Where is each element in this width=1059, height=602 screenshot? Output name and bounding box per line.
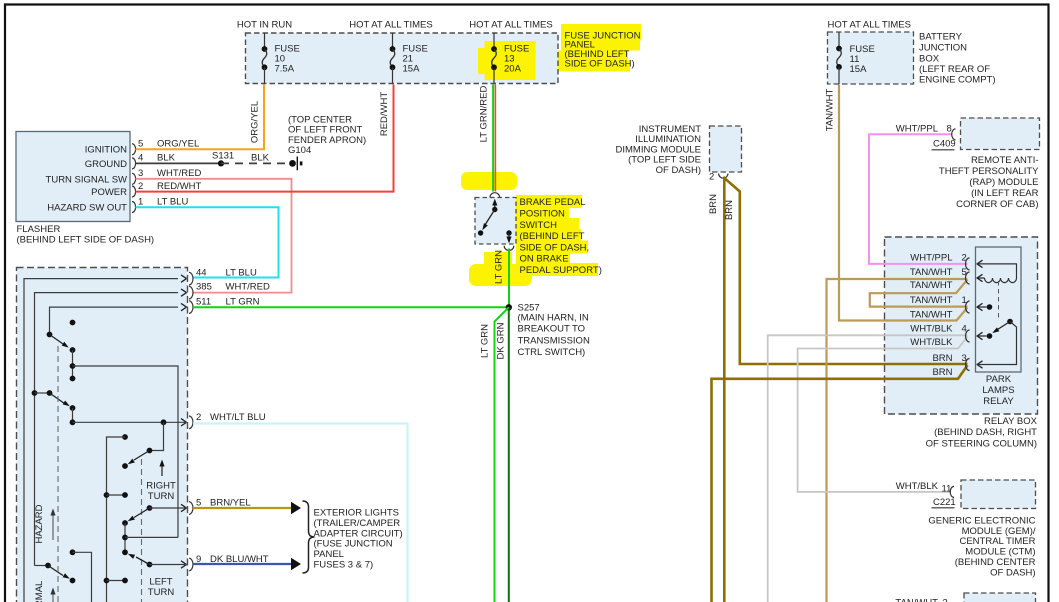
svg-text:LT BLU: LT BLU (157, 196, 188, 207)
bottom connector label (cut off) (895, 598, 947, 602)
svg-text:NORMAL: NORMAL (34, 581, 45, 602)
svg-text:BATTERY: BATTERY (919, 32, 963, 43)
fuse 13 20A (491, 33, 529, 84)
svg-text:FUSES 3 & 7): FUSES 3 & 7) (314, 559, 374, 570)
label HOT AT ALL TIMES (fuse 21) (349, 20, 432, 31)
svg-text:2: 2 (709, 172, 714, 183)
label HOT AT ALL TIMES (fuse 11) (828, 20, 911, 31)
label S257 main harn (518, 303, 590, 358)
relay contact to pin 3 (977, 322, 1017, 365)
svg-text:ORG/YEL: ORG/YEL (250, 101, 261, 143)
wire WHT/RED flasher pin 3 to hazard pin 385 (136, 179, 292, 293)
fuse 11 15A (836, 32, 875, 84)
wire BRN dimming module straight down (723, 177, 726, 602)
svg-text:(BEHIND DASH, RIGHT: (BEHIND DASH, RIGHT (934, 427, 1037, 438)
relay pin labels (910, 252, 967, 378)
labels BRN BRN vertical (708, 194, 735, 220)
hazard blade bottom (35, 563, 76, 584)
mech dashed link right (141, 459, 143, 602)
svg-text:TAN/WHT: TAN/WHT (910, 309, 953, 320)
svg-text:MODULE (CTM): MODULE (CTM) (965, 546, 1035, 557)
svg-text:TAN/WHT: TAN/WHT (895, 598, 938, 602)
flasher pin numbers and wire names (138, 139, 202, 208)
svg-text:REMOTE ANTI-: REMOTE ANTI- (971, 155, 1039, 166)
svg-text:RED/WHT: RED/WHT (379, 92, 390, 137)
splice S131 (212, 151, 234, 167)
label exterior lights (314, 508, 403, 571)
svg-text:BRN/YEL: BRN/YEL (210, 498, 251, 509)
brake pedal position switch box (475, 198, 516, 245)
label generic electronic module GEM (928, 516, 1036, 579)
svg-text:TURN: TURN (148, 491, 175, 502)
wire WHT/PPL C409 to relay pin 2 (869, 134, 968, 264)
svg-text:WHT/PPL: WHT/PPL (910, 252, 952, 263)
hazard switch wire to pin 385 (35, 286, 194, 565)
svg-text:SWITCH: SWITCH (520, 220, 558, 231)
svg-text:FLASHER: FLASHER (17, 224, 61, 235)
label park lamps relay (982, 374, 1014, 407)
svg-text:BLK: BLK (157, 153, 176, 164)
label instrument illumination dimming module (616, 124, 702, 176)
ground G104 (289, 157, 302, 171)
svg-text:44: 44 (196, 268, 207, 279)
svg-text:ORG/YEL: ORG/YEL (157, 139, 199, 150)
contact chain to long vertical (70, 350, 178, 537)
pin labels 44 385 511 (196, 268, 270, 308)
svg-text:7.5A: 7.5A (275, 64, 295, 75)
svg-text:20A: 20A (504, 64, 522, 75)
wire ORG/YEL flasher pin 5 to fuse 10 (136, 85, 265, 150)
svg-text:TURN SIGNAL SW: TURN SIGNAL SW (46, 174, 127, 185)
label HOT AT ALL TIMES (fuse 13) (469, 20, 552, 31)
svg-text:POWER: POWER (91, 187, 127, 198)
svg-text:GROUND: GROUND (85, 159, 127, 170)
svg-text:ON BRAKE: ON BRAKE (520, 254, 569, 265)
relay switch blade (977, 319, 1013, 339)
svg-text:4: 4 (138, 153, 143, 164)
switch blade 1 (47, 332, 76, 353)
svg-text:C409: C409 (933, 139, 956, 150)
instrument illumination dimming module box (710, 126, 742, 172)
fuse 21 15A (390, 33, 428, 84)
connector C221 pin 11 (896, 481, 956, 508)
right turn pivot and blade (122, 419, 166, 469)
wire DK GRN down from S257 (508, 310, 510, 602)
brake switch bottom connector arc (504, 246, 514, 251)
label LEFT TURN (148, 577, 175, 599)
label HAZARD with arrow (34, 504, 56, 543)
hazard switch wire to pin 511 (50, 301, 194, 335)
svg-text:15A: 15A (403, 64, 421, 75)
svg-text:SIDE OF DASH,: SIDE OF DASH, (520, 242, 590, 253)
svg-text:LT GRN: LT GRN (480, 324, 491, 358)
svg-text:JUNCTION: JUNCTION (919, 43, 967, 54)
hazard/turn switch box (17, 268, 188, 602)
svg-text:PARK: PARK (986, 374, 1012, 385)
svg-text:ENGINE COMPT): ENGINE COMPT) (919, 75, 996, 86)
svg-text:BRN: BRN (724, 200, 735, 220)
labels LT GRN / DK GRN vertical (480, 322, 507, 359)
wire to pin 2 (70, 412, 266, 429)
wire BRN/YEL from pin 5 (193, 502, 301, 514)
label battery junction box (919, 32, 996, 86)
highlight marker brake pedal switch label (513, 195, 598, 276)
flasher pin labels (46, 145, 128, 214)
wire RED/WHT flasher pin 2 to fuse 21 (136, 85, 394, 192)
svg-text:CORNER OF CAB): CORNER OF CAB) (956, 199, 1038, 210)
svg-text:G104: G104 (288, 145, 311, 156)
svg-text:LT GRN: LT GRN (226, 297, 260, 308)
svg-text:(LEFT REAR OF: (LEFT REAR OF (919, 64, 990, 75)
highlight marker above brake pedal switch (461, 172, 517, 190)
switch blade 2 (32, 390, 76, 422)
svg-text:511: 511 (196, 297, 211, 308)
svg-text:TURN: TURN (148, 587, 175, 598)
svg-text:BOX: BOX (919, 54, 940, 65)
svg-text:TRANSMISSION: TRANSMISSION (518, 336, 590, 347)
bottom junction dots (104, 578, 128, 584)
chain pin5 contact down (122, 523, 178, 555)
wire to pin 5 and blade (122, 498, 251, 526)
relay common contact pin 1 (977, 304, 993, 310)
svg-text:(IN LEFT REAR: (IN LEFT REAR (971, 188, 1039, 199)
mech dashed link left (57, 346, 59, 602)
svg-text:(BEHIND LEFT SIDE OF DASH): (BEHIND LEFT SIDE OF DASH) (17, 235, 155, 246)
label (TOP CENTER OF LEFT FRONT FENDER APRON) G104 (288, 114, 366, 156)
relay internal pin arrows (977, 260, 983, 368)
label ORG/YEL vertical (250, 101, 261, 143)
svg-text:HOT AT ALL TIMES: HOT AT ALL TIMES (828, 20, 911, 31)
label remote anti-theft RAP module (939, 155, 1039, 210)
highlight marker over fuse 13 (478, 41, 536, 80)
wire DK BLU/WHT from pin 9 (193, 558, 301, 570)
svg-text:OF DASH): OF DASH) (656, 165, 701, 176)
hazard switch wire to pin 44 (24, 272, 193, 602)
wire BRN from bottom to relay pin 3 (712, 365, 968, 602)
svg-text:BRN: BRN (932, 353, 952, 364)
svg-text:(FUSE JUNCTION: (FUSE JUNCTION (314, 539, 393, 550)
label FLASHER (BEHIND LEFT SIDE OF DASH) (17, 224, 155, 246)
wire LT GRN brake switch to S257 (508, 249, 510, 306)
contact dot upper (70, 320, 76, 326)
wire LT GRN/RED from fuse 13 to brake switch (493, 85, 495, 192)
fuse 10 7.5A (262, 33, 300, 84)
svg-text:LEFT: LEFT (149, 577, 172, 588)
svg-text:385: 385 (196, 282, 212, 293)
svg-text:S131: S131 (212, 151, 234, 162)
svg-text:(BEHIND CENTER: (BEHIND CENTER (955, 557, 1036, 568)
svg-text:(MAIN HARN, IN: (MAIN HARN, IN (518, 312, 589, 323)
connector C409 pin 8 (896, 124, 956, 150)
svg-text:LT BLU: LT BLU (226, 268, 257, 279)
wire WHT/BLK from bottom to relay pin 4 (768, 335, 968, 602)
fuse junction panel box (246, 33, 559, 84)
svg-text:WHT/BLK: WHT/BLK (910, 324, 953, 335)
remote anti-theft (RAP) module box (961, 118, 1040, 150)
generic electronic module (GEM) box (961, 480, 1036, 509)
svg-text:RELAY BOX: RELAY BOX (984, 416, 1038, 427)
svg-text:TAN/WHT: TAN/WHT (910, 267, 953, 278)
svg-text:RED/WHT: RED/WHT (157, 181, 202, 192)
bottom connector box (cut off) (964, 593, 1036, 602)
svg-text:5: 5 (196, 498, 201, 509)
svg-text:HOT IN RUN: HOT IN RUN (237, 20, 292, 31)
svg-text:3: 3 (943, 598, 948, 602)
svg-text:2: 2 (196, 412, 201, 423)
svg-text:CTRL SWITCH): CTRL SWITCH) (518, 347, 586, 358)
label NORMAL with arrow (34, 581, 56, 602)
svg-text:IGNITION: IGNITION (85, 145, 127, 156)
svg-text:EXTERIOR LIGHTS: EXTERIOR LIGHTS (314, 508, 400, 519)
svg-text:BRN: BRN (708, 194, 719, 214)
svg-text:TAN/WHT: TAN/WHT (910, 280, 953, 291)
brace exterior lights (303, 501, 315, 573)
label fuse junction panel (565, 30, 641, 69)
svg-text:OF STEERING COLUMN): OF STEERING COLUMN) (926, 438, 1037, 449)
highlight marker below brake pedal switch (469, 252, 532, 286)
svg-text:C221: C221 (933, 497, 956, 508)
label LT GRN/RED vertical (479, 86, 490, 143)
label RED/WHT vertical (379, 92, 390, 137)
brake switch internals (478, 199, 512, 244)
svg-text:BREAKOUT TO: BREAKOUT TO (518, 324, 586, 335)
right turn upper contact (107, 434, 128, 602)
svg-text:TAN/WHT: TAN/WHT (910, 295, 953, 306)
svg-text:WHT/BLK: WHT/BLK (910, 337, 953, 348)
flasher box (16, 132, 130, 222)
wire LT GRN pin 511 to S257 (193, 306, 506, 308)
svg-text:WHT/RED: WHT/RED (226, 282, 270, 293)
park lamps relay inner box (976, 247, 1022, 372)
battery junction box (828, 32, 914, 84)
svg-text:RELAY: RELAY (983, 396, 1014, 407)
svg-text:8: 8 (947, 124, 952, 135)
wire to pin 9 and blade (128, 554, 269, 571)
flasher pin arcs (132, 144, 136, 213)
svg-text:3: 3 (138, 168, 143, 179)
label HOT IN RUN (237, 20, 292, 31)
brake switch top connector arc (490, 193, 500, 198)
label RIGHT TURN with arrow (146, 460, 176, 503)
junction dots mid (104, 492, 128, 498)
svg-text:THEFT PERSONALITY: THEFT PERSONALITY (939, 166, 1039, 177)
svg-text:WHT/BLK: WHT/BLK (896, 481, 939, 492)
relay actuating dashed link (998, 281, 1000, 320)
svg-text:5: 5 (138, 139, 143, 150)
label TAN/WHT vertical (825, 89, 836, 132)
highlight marker FUSE JUNCTION PANEL label (554, 24, 641, 72)
relay pin arcs (966, 258, 970, 371)
svg-text:LT GRN/RED: LT GRN/RED (479, 86, 490, 143)
wire BLK flasher pin 4 to S131 (136, 162, 222, 164)
wire WHT/BLK relay pin 4 to C221 pin 11 (798, 337, 968, 492)
wire BLK dashed to ground (221, 153, 289, 164)
wire WHT/LT BLU from pin 2 (193, 424, 408, 602)
dimming module pin 2 connector (709, 172, 728, 183)
svg-text:HAZARD: HAZARD (34, 504, 45, 543)
svg-text:PEDAL SUPPORT): PEDAL SUPPORT) (520, 265, 602, 276)
svg-text:BLK: BLK (251, 153, 270, 164)
wire BRN dimming module to relay pin 3 (723, 177, 967, 364)
svg-text:POSITION: POSITION (520, 209, 566, 220)
svg-text:1: 1 (138, 196, 143, 207)
label relay box (926, 416, 1038, 449)
wire LT GRN down from S257 (495, 307, 509, 602)
svg-text:HOT AT ALL TIMES: HOT AT ALL TIMES (349, 20, 432, 31)
svg-text:(RAP) MODULE: (RAP) MODULE (969, 177, 1038, 188)
hazard contact to vertical (70, 549, 92, 602)
splice S257 (506, 304, 512, 310)
svg-text:BRAKE PEDAL: BRAKE PEDAL (520, 197, 586, 208)
svg-text:LT GRN: LT GRN (494, 250, 505, 284)
svg-text:BRN: BRN (932, 367, 952, 378)
svg-text:OF DASH): OF DASH) (990, 568, 1035, 579)
svg-text:SIDE OF DASH): SIDE OF DASH) (565, 58, 635, 69)
relay coil circuit (977, 264, 1017, 283)
svg-text:WHT/LT BLU: WHT/LT BLU (210, 412, 266, 423)
label brake pedal position switch (520, 197, 602, 276)
svg-text:HOT AT ALL TIMES: HOT AT ALL TIMES (469, 20, 552, 31)
wire TAN/WHT from bottom to relay pin 5 (827, 279, 968, 602)
wire TAN/WHT jumper relay pin 5 to pin 1 (870, 280, 968, 307)
svg-text:15A: 15A (850, 64, 868, 75)
label LT GRN below switch (494, 250, 505, 284)
svg-text:HAZARD SW OUT: HAZARD SW OUT (47, 203, 127, 214)
svg-text:2: 2 (138, 181, 143, 192)
svg-text:RIGHT: RIGHT (146, 481, 176, 492)
wire LT BLU flasher pin 1 to hazard pin 44 (136, 207, 279, 277)
svg-text:WHT/RED: WHT/RED (157, 168, 201, 179)
svg-text:LAMPS: LAMPS (982, 385, 1014, 396)
svg-text:TAN/WHT: TAN/WHT (825, 89, 836, 132)
relay box (885, 237, 1038, 414)
wire TAN/WHT fuse 11 to relay pin 1 (839, 85, 968, 321)
svg-text:(BEHIND LEFT: (BEHIND LEFT (520, 231, 585, 242)
svg-text:WHT/PPL: WHT/PPL (896, 124, 938, 135)
svg-text:DK GRN: DK GRN (496, 322, 507, 359)
